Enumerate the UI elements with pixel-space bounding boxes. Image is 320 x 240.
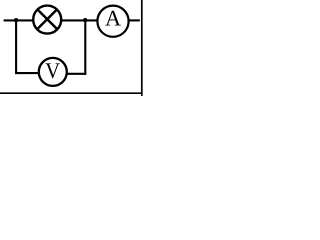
svg-text:A: A (105, 6, 121, 31)
lamp L1 cross stroke 1 (38, 10, 57, 29)
node junction dot left (14, 18, 18, 22)
lamp L1 cross stroke 2 (38, 10, 57, 29)
wire: bottom left horizontal to voltmeter (15, 72, 39, 74)
voltmeter V1 circle (39, 58, 67, 86)
lamp L1 circle (33, 6, 61, 34)
right border line (141, 0, 143, 96)
svg-text:V: V (45, 58, 60, 83)
wire: right vertical branch (84, 20, 86, 74)
wire: ammeter to right (129, 19, 140, 21)
wire: top left segment from left edge to lamp (4, 19, 34, 21)
node junction dot right (83, 18, 87, 22)
ammeter A1 circle (97, 6, 128, 37)
bottom border line (0, 92, 142, 94)
wire: left vertical branch (15, 20, 17, 74)
wire: voltmeter to right vertical branch (67, 73, 87, 75)
wire: between lamp and ammeter (61, 19, 97, 21)
